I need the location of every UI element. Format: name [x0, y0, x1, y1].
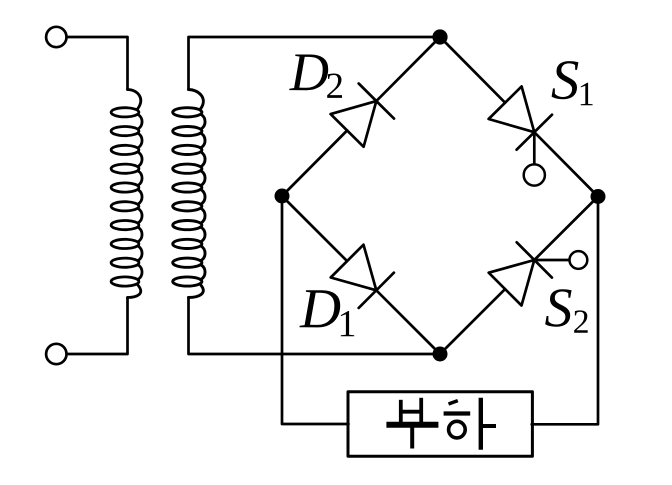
- thyristor S1 gate lead: [533, 132, 536, 164]
- load label Bu: right vertical: [419, 398, 423, 424]
- terminal primary bottom: [46, 344, 66, 364]
- load label Ha: bar: [444, 411, 471, 415]
- wire primary top lead: [67, 37, 128, 90]
- load label Ha: vertical: [479, 398, 483, 450]
- inductor primary winding: [111, 90, 142, 298]
- diode D2: [331, 101, 377, 147]
- load box: [348, 392, 532, 456]
- thyristor S2 gate lead: [534, 259, 569, 262]
- load label Bu: left vertical: [399, 400, 403, 424]
- load label Ha: top tick: [449, 401, 458, 404]
- wire arm top-right: [440, 37, 598, 197]
- wire right node to load: [532, 197, 598, 425]
- node left: [275, 189, 290, 204]
- terminal primary top: [46, 27, 66, 47]
- label D2: [289, 55, 328, 91]
- wire arm left-top: [282, 37, 440, 196]
- thyristor S2: [489, 260, 535, 306]
- thyristor S1: [489, 86, 535, 132]
- load label Bu: bottom thick bar: [386, 422, 438, 428]
- label S1: [552, 61, 579, 99]
- inductor secondary winding: [173, 90, 205, 298]
- wire arm left-bottom: [282, 196, 440, 354]
- wire secondary bottom to bridge bottom node: [189, 298, 441, 355]
- load label Ha: arm: [482, 424, 496, 428]
- wire primary bottom lead: [67, 298, 128, 355]
- wire secondary top to bridge top node: [189, 37, 441, 90]
- node bottom: [433, 347, 448, 362]
- wire arm bottom-right: [440, 197, 598, 355]
- label D1: [300, 290, 341, 327]
- load label Ha: ring: [449, 421, 466, 438]
- thyristor S2 gate terminal: [570, 251, 588, 269]
- load label Bu: middle bar: [399, 410, 423, 414]
- node top: [432, 29, 447, 44]
- node right: [591, 189, 606, 204]
- thyristor S1 gate terminal: [524, 164, 545, 185]
- label S2: [545, 289, 571, 327]
- load label Bu: descender: [410, 427, 414, 449]
- diode D1: [331, 245, 377, 291]
- wire left node to load: [282, 196, 349, 424]
